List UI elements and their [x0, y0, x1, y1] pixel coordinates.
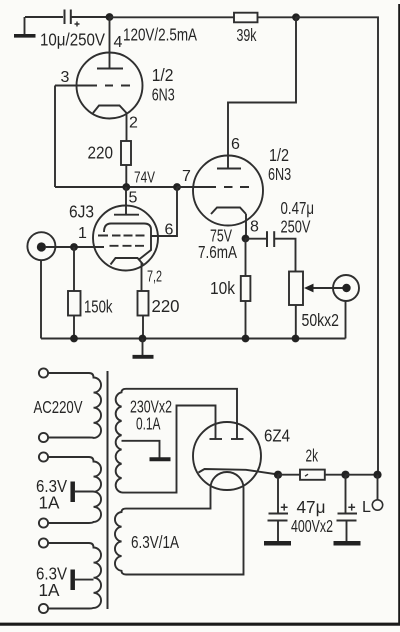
junction dot L node	[373, 471, 381, 479]
HV center tap wire	[122, 441, 160, 458]
6J3 grid dashes row1	[98, 235, 145, 237]
AC220V terminal top	[39, 368, 48, 377]
wire cathode node to C2	[246, 238, 267, 240]
pot wiper arrow	[304, 284, 343, 293]
wire	[48, 542, 89, 544]
ground rail horizontal	[41, 338, 346, 340]
resistor 10k	[241, 276, 251, 301]
wire 6.3V/1A bottom to V3 filament right	[126, 488, 244, 575]
V3 filament lead left to 6.3V/1A winding	[126, 488, 211, 509]
svg-text:400Vx2: 400Vx2	[291, 516, 333, 536]
wire terminal to primary	[48, 372, 89, 374]
V3 left plate bar	[210, 438, 223, 440]
junction dot node 7	[173, 183, 181, 191]
input jack J1	[27, 232, 55, 260]
wire C1 to node A	[71, 16, 108, 18]
HV center tap ground bar	[150, 457, 171, 461]
svg-text:1A: 1A	[39, 493, 60, 513]
wire 220 to ground rail	[142, 316, 144, 339]
svg-text:6Z4: 6Z4	[264, 426, 290, 446]
6.3V winding 1 terminal top	[39, 452, 48, 461]
svg-text:150k: 150k	[84, 297, 113, 317]
6.3V winding 1 terminal bottom	[39, 518, 48, 527]
capacitor C2 0.47u/250V	[267, 231, 274, 247]
svg-text:7,2: 7,2	[147, 269, 162, 286]
wire L node to terminal L	[377, 475, 379, 500]
wire pin1 node to 150k	[73, 247, 75, 291]
6.3V winding 2	[89, 543, 101, 609]
V2 cathode	[211, 208, 246, 215]
node B junction dot	[292, 13, 300, 21]
svg-text:50kx2: 50kx2	[302, 310, 340, 330]
wire 39k to node B	[258, 16, 297, 18]
V1 plate bar	[97, 68, 123, 70]
V2 cathode lead pin 8	[245, 214, 247, 239]
junction dot at 74V/R220	[122, 183, 130, 191]
svg-text:0.1A: 0.1A	[136, 414, 161, 434]
V2 plate bar	[217, 168, 241, 170]
HV secondary 230Vx2 winding	[116, 389, 126, 493]
V3 filament dome	[211, 472, 244, 488]
6.3V/1A winding	[115, 509, 126, 575]
wire HV bottom to V3 left plate	[126, 406, 216, 493]
junction dot 220/ground	[139, 335, 147, 343]
svg-text:3: 3	[61, 69, 70, 86]
svg-text:6: 6	[231, 136, 240, 153]
wire node B down to V2 plate pin 6	[228, 17, 296, 168]
capacitor C4 47u (right)	[334, 475, 361, 544]
wire cathode node to 10k	[245, 239, 247, 277]
6J3 plate bar	[114, 214, 139, 216]
triode V2 1/2 6N3 envelope	[193, 156, 263, 226]
junction dot V2 cathode node	[242, 235, 250, 243]
junction dot 150k/ground	[70, 335, 78, 343]
svg-text:6.3V/1A: 6.3V/1A	[131, 532, 179, 552]
svg-text:1/2: 1/2	[269, 145, 289, 165]
svg-text:1: 1	[78, 225, 87, 242]
resistor 39k	[234, 13, 258, 23]
junction dot 10k/ground	[242, 335, 250, 343]
junction dot node C	[341, 471, 349, 479]
svg-text:2k: 2k	[306, 446, 319, 466]
resistor 220 (V1 cathode)	[121, 141, 131, 165]
wire winding to terminal	[48, 437, 89, 439]
6J3 plate lead pin 5	[125, 187, 127, 215]
6.3V#1 center tap bar	[73, 482, 94, 503]
svg-text:8: 8	[250, 219, 259, 236]
wire 220 to 74V node	[125, 165, 127, 187]
output jack J2	[333, 275, 359, 301]
6.3V winding 2 terminal bottom	[39, 604, 48, 613]
6J3 cathode lead pin 7 down	[141, 263, 143, 292]
svg-text:L: L	[362, 499, 371, 516]
wire cathode node to 2k	[278, 474, 300, 476]
svg-text:10μ/250V: 10μ/250V	[40, 30, 105, 50]
junction dot pot/ground	[292, 335, 300, 343]
svg-text:6: 6	[165, 222, 174, 239]
junction dot V3 cathode / C3	[274, 471, 282, 479]
svg-text:7: 7	[182, 168, 191, 185]
svg-text:1A: 1A	[39, 580, 60, 600]
V1 plate lead from node A	[109, 17, 111, 69]
wire pot bottom to ground rail	[295, 305, 297, 339]
transformer core	[107, 371, 109, 609]
svg-text:120V/2.5mA: 120V/2.5mA	[123, 25, 197, 45]
6J3 grid dashes row2 (pin 1)	[110, 245, 145, 247]
svg-text:10k: 10k	[210, 278, 235, 298]
wire J1 shell down to ground rail	[40, 261, 42, 339]
wire V1 grid pin3 to 74V node rail	[55, 86, 97, 188]
wire J2 shell to ground rail	[345, 301, 347, 339]
node 74V horizontal wire	[55, 186, 194, 188]
svg-text:6N3: 6N3	[152, 85, 175, 105]
wire node B to B+ rail (right)	[296, 17, 378, 471]
wire	[48, 456, 89, 458]
resistor 220 (6J3 cathode)	[138, 291, 149, 316]
svg-text:5: 5	[129, 190, 138, 207]
wire	[48, 522, 89, 524]
wire ground to C1	[25, 16, 63, 18]
6.3V#2 center tap bar	[73, 570, 94, 591]
svg-text:39k: 39k	[237, 25, 257, 45]
svg-text:250V: 250V	[281, 217, 311, 237]
svg-text:1/2: 1/2	[152, 65, 174, 85]
svg-text:220: 220	[152, 296, 180, 316]
primary winding AC220V	[89, 373, 101, 438]
wire C2 to pot top	[274, 239, 295, 272]
6.3V winding 1	[89, 457, 101, 523]
svg-text:2: 2	[129, 115, 138, 132]
capacitor C1 10u/250V	[65, 10, 80, 27]
svg-text:4: 4	[114, 34, 123, 51]
V1 cathode	[93, 106, 127, 114]
wire 2k to node C	[324, 474, 346, 476]
junction dot pin1/150k	[70, 243, 78, 251]
wire V1 cathode pin2 down	[126, 113, 128, 141]
wire node7 down to 6J3 screen pin 6	[152, 187, 178, 236]
V3 right plate bar	[231, 438, 244, 440]
wire node C to L node	[346, 474, 378, 476]
wire 150k to ground rail	[73, 316, 75, 339]
pentode 6J3 envelope	[93, 206, 158, 271]
6J3 screen/suppressor box	[104, 224, 151, 260]
wire node A to R 39k	[110, 16, 235, 18]
ground symbol on rail	[133, 339, 154, 357]
node A junction dot	[106, 13, 114, 21]
svg-text:0.47μ: 0.47μ	[281, 198, 315, 218]
6J3 cathode	[111, 258, 144, 265]
triode V1 1/2 6N3 envelope	[77, 53, 143, 119]
6.3V winding 2 terminal top	[39, 538, 48, 547]
AC220V terminal bottom	[39, 433, 48, 442]
resistor 2k	[300, 470, 325, 480]
wire J1 to 6J3 grid pin 1	[45, 246, 104, 248]
V2 grid wire from node7 (pin 7)	[177, 186, 216, 188]
V3 cathode	[199, 469, 279, 475]
resistor 150k	[68, 291, 81, 316]
wire HV top to V3 right plate	[126, 389, 237, 439]
svg-text:220: 220	[88, 143, 114, 163]
wire	[48, 608, 89, 610]
rectifier V3 6Z4 envelope	[193, 422, 261, 490]
svg-text:47μ: 47μ	[297, 497, 326, 517]
V1 grid (dashed, pin 3)	[105, 85, 130, 87]
svg-text:6J3: 6J3	[69, 202, 94, 222]
wire 10k to ground rail	[245, 301, 247, 339]
V2 grid dashes	[224, 186, 249, 188]
svg-text:AC220V: AC220V	[34, 397, 83, 417]
terminal L	[372, 500, 382, 510]
svg-text:7.6mA: 7.6mA	[198, 242, 237, 262]
svg-text:74V: 74V	[134, 170, 155, 187]
capacitor C3 47u (left)	[264, 475, 291, 544]
ground (top-left, for C1)	[14, 17, 36, 36]
potentiometer 50kx2 body	[289, 272, 303, 306]
svg-text:6N3: 6N3	[268, 164, 291, 184]
